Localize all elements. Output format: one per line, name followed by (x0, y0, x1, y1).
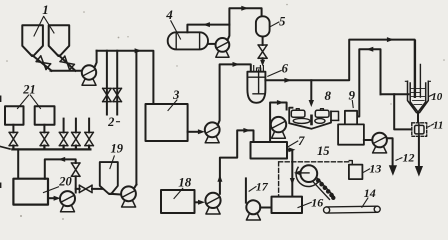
pump P4 (216, 38, 230, 52)
valve stub5 (85, 132, 93, 145)
centrifuge 8 (289, 108, 331, 129)
arrow into vessel5 (241, 6, 248, 11)
svg-text:21: 21 (22, 82, 36, 96)
valve under hopper 1b (60, 56, 74, 70)
valve bin21a (9, 132, 17, 145)
dashed enclosure 15 (279, 162, 350, 197)
svg-text:17: 17 (256, 179, 269, 193)
wire bin21b drop (43, 125, 45, 133)
wire pump17 suction (245, 178, 247, 202)
valve on pump20 discharge (79, 185, 92, 192)
arrow up on pump18 riser (217, 175, 222, 182)
vessel10 feed tube (415, 41, 420, 98)
valve under hopper 1a (36, 56, 50, 70)
arrow on recycle line (58, 157, 65, 162)
hopper 1b (49, 25, 69, 56)
drum casing (296, 167, 319, 186)
vessel 10 (408, 81, 429, 112)
storage bin 21b (35, 106, 55, 125)
arrow into pump3 (198, 129, 205, 134)
tank 16 (272, 197, 303, 213)
wire tank3 outlet (188, 131, 200, 133)
pump P3 (205, 122, 220, 137)
wire pump3 riser to vessel6 (218, 64, 251, 125)
wire pump20 recycle riser (75, 176, 77, 192)
label 21 (22, 82, 36, 96)
svg-text:10: 10 (431, 91, 443, 103)
thickener 9 upper box (345, 111, 357, 125)
wire unit11 product drop (418, 136, 420, 167)
chute lines (313, 177, 334, 199)
wire branch down to centrifuge8 (310, 80, 312, 100)
pump P18 (205, 193, 220, 208)
valve stub4 (72, 132, 80, 145)
wire hopper1a outlet (33, 56, 52, 71)
label 4 (165, 7, 173, 22)
vessel 5 (256, 16, 270, 36)
feed stub 5 (88, 119, 90, 133)
wire pump20 to mixer19 (76, 188, 103, 190)
thickener 9 lower box (338, 124, 364, 144)
reactor6 nozzles (251, 66, 264, 72)
centrifuge8 right carriage (315, 110, 329, 117)
label 7 (298, 134, 305, 148)
arrow left from drum (294, 171, 301, 176)
pump P19 (121, 186, 136, 201)
arrow on header to tank3 (135, 48, 142, 53)
wire pump1 suction (51, 70, 83, 72)
valve 2b (113, 88, 121, 101)
wire tank7 outlet to tank16 (287, 150, 292, 197)
rotary unit 11 (412, 123, 427, 137)
arrow toward vessel4 (203, 22, 210, 27)
wire pump1 riser (95, 51, 97, 67)
arrow on header into tank7 (243, 128, 250, 133)
wire tank18 outlet (195, 201, 199, 203)
svg-text:8: 8 (325, 88, 332, 103)
label 10 (431, 91, 443, 103)
arrow into centrifuge8 (309, 100, 314, 107)
label 12 (403, 151, 415, 165)
wire pump18 to tank7 header (220, 130, 254, 193)
label 5 (279, 14, 285, 28)
label 20 (58, 174, 72, 188)
tank 20 (13, 179, 48, 205)
label 14 (364, 186, 376, 200)
wire pump9 discharge down (387, 138, 393, 167)
label 15 (317, 144, 330, 158)
label 17 (256, 179, 269, 193)
wire pump7 loop to centrifuge (270, 103, 287, 143)
reactor 6 (247, 72, 265, 103)
arrow into pump20 (54, 196, 61, 201)
wire vessel4 outlet to pump4 (208, 43, 216, 45)
wire hopper19 to pump19 (110, 193, 122, 196)
wire long riser from pump19 (135, 51, 137, 185)
wire vessel4 top recycle (187, 25, 229, 33)
svg-text:12: 12 (403, 151, 415, 165)
scan speck left edge a (0, 97, 1, 102)
wire valve line A (106, 51, 108, 115)
svg-text:14: 14 (364, 186, 376, 200)
conveyor 14 (327, 206, 378, 213)
tank 3 (146, 104, 188, 141)
chute material dots (316, 178, 335, 200)
svg-text:11: 11 (433, 119, 443, 131)
feed stub 4 (75, 119, 77, 133)
reactor6 stirrer (253, 70, 264, 94)
valve stub3 (59, 132, 67, 145)
wire inner return header (357, 49, 380, 116)
label 8 (325, 88, 332, 103)
arrow on reactor6 outlet (284, 78, 291, 83)
svg-text:6: 6 (282, 62, 289, 76)
pump P17 (246, 200, 260, 214)
label 13 (369, 162, 381, 176)
arrow on top header to vessel10 (387, 37, 394, 42)
centrifuge8 center bar (310, 115, 313, 126)
pump P1 (82, 65, 96, 79)
hopper 1a (22, 25, 43, 56)
arrow on pump7 loop (277, 100, 284, 105)
wire thickener9 outlet (364, 139, 373, 141)
arrow into pump18 (198, 200, 205, 205)
svg-text:18: 18 (178, 175, 192, 190)
product arrow 12 (389, 165, 397, 176)
pump P9 (372, 133, 387, 148)
valve bin21b (40, 132, 48, 145)
wire manifold to vessel10 (381, 93, 409, 95)
wire pump17 to tank16 (260, 207, 271, 209)
label 9 (349, 88, 356, 103)
label 18 (178, 175, 192, 190)
wire collect header (12, 146, 90, 150)
wire bin21a drop (12, 125, 14, 133)
wire top header left (97, 51, 154, 104)
arrow into vessel6 left nozzle (233, 62, 240, 67)
svg-text:16: 16 (311, 195, 323, 209)
centrifuge8 left carriage (291, 110, 305, 117)
wire valve to vessel6 (262, 58, 264, 60)
valve recycle (72, 163, 80, 176)
wire reactor6 outlet header (265, 40, 414, 97)
feed stub 3 (63, 119, 65, 133)
wire tee down to unit11 (394, 94, 412, 129)
tank 18 (161, 190, 195, 213)
scan speck left edge c (0, 184, 1, 188)
wire recycle to tank20 (45, 159, 76, 178)
arrow into vessel6 right nozzle (260, 60, 265, 66)
wire header to tank20 (17, 149, 19, 178)
label 6 (282, 62, 289, 76)
pump P20 (60, 191, 75, 206)
storage bin 21a (5, 106, 24, 125)
arrow on return header (366, 47, 373, 52)
wire tank20 outlet (48, 197, 56, 199)
product arrow below unit11 (415, 166, 423, 177)
svg-text:7: 7 (298, 134, 305, 148)
scan speck left edge b (1, 147, 11, 150)
tank 7 (251, 142, 288, 159)
svg-text:4: 4 (165, 7, 173, 22)
label 11 (433, 119, 443, 131)
svg-text:19: 19 (111, 141, 124, 155)
arrow right from tank7 (288, 147, 295, 152)
wire valve line B (116, 51, 118, 115)
svg-text:20: 20 (58, 174, 72, 188)
label 3 (172, 88, 179, 102)
label 2 (107, 115, 114, 129)
wire pump19 riser join (134, 185, 137, 189)
vessel 4 (168, 32, 208, 49)
wire drum to drop line (298, 172, 310, 174)
vessel10 liquid hatch (411, 89, 425, 105)
arrow down into tank16 (290, 178, 295, 185)
pump P7 (271, 117, 286, 132)
svg-text:15: 15 (317, 144, 330, 158)
valve under vessel5 (258, 45, 267, 58)
wire vessel10 cone outlet (417, 112, 419, 123)
drum filter 15 (300, 165, 317, 182)
label 16 (311, 195, 323, 209)
wire pump4 riser to vessel5 (228, 8, 262, 40)
svg-text:5: 5 (279, 14, 285, 28)
wire vessel5 drop (262, 37, 264, 46)
label 1 (42, 2, 49, 17)
svg-text:13: 13 (369, 162, 381, 176)
mixer hopper 19 (100, 162, 118, 194)
svg-text:2: 2 (107, 115, 114, 129)
box 13 (349, 165, 363, 180)
valve 2a (103, 88, 111, 101)
svg-text:3: 3 (172, 88, 179, 102)
label 19 (111, 141, 124, 155)
wire hopper1b outlet (59, 56, 75, 71)
svg-text:1: 1 (42, 2, 49, 17)
